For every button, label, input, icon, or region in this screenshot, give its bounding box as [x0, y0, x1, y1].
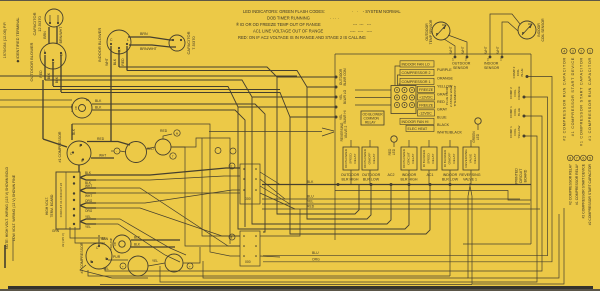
svg-text:ID BLOWER: ID BLOWER — [443, 149, 447, 167]
svg-text:8: 8 — [569, 156, 571, 160]
svg-text:000: 000 — [245, 260, 251, 264]
svg-text:RELAY: RELAY — [431, 154, 435, 164]
svg-text:ORG: ORG — [85, 209, 93, 213]
svg-text:NOTE: HIGH VOLT. WIRING (115 V: NOTE: HIGH VOLT. WIRING (115 V) SHOWN BO… — [5, 167, 9, 249]
svg-text:CB: CB — [113, 242, 117, 246]
svg-text:1: 1 — [589, 49, 591, 53]
svg-text:SPEED: SPEED — [427, 152, 431, 163]
svg-text:L1: L1 — [86, 98, 90, 102]
svg-text:#1 COMPRESSOR RELAY: #1 COMPRESSOR RELAY — [575, 163, 579, 205]
svg-text:#1 COMPRESSOR RUN CAPACITOR: #1 COMPRESSOR RUN CAPACITOR — [588, 57, 592, 141]
svg-text:THERMOSTAT: THERMOSTAT — [453, 85, 457, 106]
svg-text:· · - SYSTEM NORMAL: · · - SYSTEM NORMAL — [352, 9, 401, 14]
svg-text:000: 000 — [245, 197, 251, 201]
svg-text:#1 COMPRESSOR START DEVICE: #1 COMPRESSOR START DEVICE — [571, 57, 575, 136]
svg-text:#2 COMPRESSOR RUN CAPACITOR: #2 COMPRESSOR RUN CAPACITOR — [562, 57, 566, 141]
svg-text:BRN/WHT: BRN/WHT — [59, 26, 63, 44]
svg-text:BLWR LO: BLWR LO — [343, 89, 347, 104]
svg-text:#1 COMPRESSOR START CAPACITOR: #1 COMPRESSOR START CAPACITOR — [580, 57, 584, 146]
svg-text:BLK: BLK — [134, 236, 141, 240]
svg-text:BLACK: BLACK — [437, 123, 450, 127]
svg-text:BLU: BLU — [312, 251, 319, 255]
svg-text:® ID OR OD FREEZE TEMP OUT OF: ® ID OR OD FREEZE TEMP OUT OF RANGE — [236, 22, 321, 27]
svg-text:BRN: BRN — [102, 237, 109, 241]
svg-text:RED: RED — [307, 205, 315, 209]
svg-text:GRN: GRN — [52, 229, 60, 233]
svg-text:#2 COMPRESSOR START CAPACITOR: #2 COMPRESSOR START CAPACITOR — [588, 163, 592, 225]
svg-text:OD BLOWER: OD BLOWER — [402, 148, 406, 168]
svg-text:4: 4 — [563, 49, 565, 53]
svg-text:BLU: BLU — [307, 195, 314, 199]
svg-text:BRN/WHT: BRN/WHT — [140, 47, 158, 51]
svg-text:TERM. BOARD: TERM. BOARD — [50, 194, 54, 218]
svg-text:5 AMP: 5 AMP — [70, 104, 74, 112]
svg-text:BLR LOW: BLR LOW — [363, 178, 380, 182]
svg-text:RED: RED — [121, 58, 125, 66]
svg-text:TWO AMP: TWO AMP — [109, 238, 113, 251]
svg-text:WHT: WHT — [85, 194, 92, 198]
svg-text:5: 5 — [589, 156, 591, 160]
svg-text:1: 1 — [500, 58, 502, 62]
svg-text:BRN: BRN — [140, 32, 148, 36]
svg-text:VALVE 2: VALVE 2 — [344, 126, 348, 139]
svg-text:ORG: ORG — [85, 199, 93, 203]
svg-text:-12VDC: -12VDC — [419, 111, 432, 115]
svg-text:BLUE: BLUE — [520, 68, 524, 76]
svg-text:WHITE/BLACK: WHITE/BLACK — [437, 131, 463, 135]
svg-text:COIL SENSOR: COIL SENSOR — [541, 18, 545, 42]
svg-text:--- --- ---: --- --- --- — [353, 22, 372, 27]
svg-text:PURPLE: PURPLE — [437, 68, 452, 72]
svg-text:BLK: BLK — [95, 106, 102, 110]
svg-text:3: 3 — [572, 49, 574, 53]
svg-text:WHT: WHT — [496, 46, 500, 53]
svg-text:BLK: BLK — [72, 128, 76, 135]
svg-text:BOARD: BOARD — [524, 169, 528, 182]
svg-text:ID BLOWER: ID BLOWER — [422, 149, 426, 167]
svg-text:BRN: BRN — [43, 31, 47, 39]
svg-text:ON/OFF: ON/OFF — [368, 153, 372, 165]
svg-text:YELLOW: YELLOW — [517, 125, 521, 138]
svg-text:BLUE: BLUE — [437, 116, 447, 120]
svg-text:RELAY: RELAY — [473, 154, 477, 164]
svg-text:RELAY: RELAY — [452, 154, 456, 164]
svg-text:OUTDOOR: OUTDOOR — [362, 173, 381, 177]
svg-text:OD BLOWER: OD BLOWER — [344, 148, 348, 168]
svg-text:RED: ON IF AC2 VOLTAGE IS IN R: RED: ON IF AC2 VOLTAGE IS IN RANGE AND S… — [238, 35, 366, 40]
svg-text:LED: LED — [476, 133, 480, 140]
svg-text:CB: CB — [74, 106, 78, 110]
svg-text:#2 COMPRESSOR RELAY: #2 COMPRESSOR RELAY — [568, 163, 572, 205]
svg-text:FREEZE: FREEZE — [419, 88, 434, 92]
svg-text:GRAY: GRAY — [437, 108, 448, 112]
svg-text:-: - — [116, 150, 117, 154]
svg-text:SPEED: SPEED — [349, 152, 353, 163]
svg-text:YEL: YEL — [103, 267, 109, 271]
svg-text:YEL: YEL — [152, 259, 158, 263]
svg-text:7.5/370: 7.5/370 — [191, 36, 196, 50]
svg-text:AC1 LINE VOLTAGE OUT OF RANGE: AC1 LINE VOLTAGE OUT OF RANGE — [253, 29, 324, 34]
svg-text:RED: RED — [97, 137, 105, 141]
svg-text:ELEC HEAT: ELEC HEAT — [408, 127, 429, 131]
svg-text:LOW VOLT. WIRING (12 V) SHOWN: LOW VOLT. WIRING (12 V) SHOWN FINE — [12, 174, 16, 241]
svg-text:RED: RED — [160, 129, 168, 133]
svg-text:WHT: WHT — [105, 58, 109, 66]
svg-text:BLK: BLK — [85, 171, 92, 175]
svg-text:BLWR COM: BLWR COM — [343, 68, 347, 86]
svg-text:BLR HIGH: BLR HIGH — [342, 178, 359, 182]
svg-text:ORG: ORG — [312, 257, 320, 261]
svg-text:INDOOR: INDOOR — [484, 62, 499, 66]
svg-text:12.5/370: 12.5/370 — [37, 15, 42, 31]
svg-text:OUTDOOR: OUTDOOR — [452, 62, 471, 66]
svg-text:#1 COMPRESSOR: #1 COMPRESSOR — [58, 131, 62, 162]
svg-text:BLK: BLK — [95, 99, 102, 103]
svg-text:CIRCUIT #1 CIRCUIT #2: CIRCUIT #1 CIRCUIT #2 — [59, 183, 63, 218]
svg-text:RELAY: RELAY — [372, 154, 376, 164]
svg-text:FREEZE: FREEZE — [419, 103, 434, 107]
svg-text:INDOOR BLOWER: INDOOR BLOWER — [97, 28, 102, 63]
svg-text:YEL: YEL — [307, 200, 314, 204]
svg-text:RELAY: RELAY — [411, 154, 415, 164]
svg-text:REVERSING: REVERSING — [464, 149, 468, 168]
svg-text:BLK: BLK — [307, 180, 314, 184]
svg-text:AC1: AC1 — [427, 173, 434, 177]
svg-text:PUR: PUR — [113, 255, 121, 259]
svg-text:PRINTED: PRINTED — [515, 168, 519, 184]
svg-text:1970/034 (12-06) P.P.: 1970/034 (12-06) P.P. — [3, 22, 7, 58]
svg-text:2: 2 — [580, 49, 582, 53]
svg-text:INDOOR FAN LO: INDOOR FAN LO — [402, 62, 430, 66]
svg-text:#2 COMPRESSOR START DEVICE: #2 COMPRESSOR START DEVICE — [582, 163, 586, 218]
svg-text:6: 6 — [582, 156, 584, 160]
svg-text:VALVE 1: VALVE 1 — [463, 178, 477, 182]
svg-text:WHT: WHT — [99, 154, 106, 158]
svg-text:RELAY: RELAY — [353, 154, 357, 164]
svg-text:COMPRESSOR 2: COMPRESSOR 2 — [402, 71, 431, 75]
svg-text:LED: LED — [392, 148, 396, 155]
svg-text:REVERSING: REVERSING — [459, 173, 480, 177]
svg-text:HIGH VOLT.: HIGH VOLT. — [45, 197, 49, 215]
svg-text:WHT: WHT — [85, 184, 92, 188]
svg-text:DOB TIMER RUNNING: DOB TIMER RUNNING — [267, 16, 310, 21]
svg-text:COMPRESSOR 1: COMPRESSOR 1 — [402, 80, 431, 84]
svg-text:WHT: WHT — [484, 46, 488, 53]
svg-text:BLUE: BLUE — [517, 108, 521, 116]
svg-text:BLK: BLK — [113, 58, 117, 65]
svg-text:YEL: YEL — [85, 215, 91, 219]
svg-text:AC2: AC2 — [388, 173, 395, 177]
svg-text:ORANGE: ORANGE — [437, 77, 454, 81]
svg-text:+: + — [122, 265, 124, 269]
svg-text:TEMP SENSOR: TEMP SENSOR — [429, 19, 433, 44]
svg-text:7: 7 — [576, 156, 578, 160]
svg-text:L: L — [127, 38, 129, 42]
svg-text:BLK: BLK — [134, 243, 141, 247]
svg-text:BLWR HI: BLWR HI — [343, 110, 347, 123]
svg-text:OD BLOWER: OD BLOWER — [363, 148, 367, 168]
svg-text:SENSOR: SENSOR — [453, 66, 469, 70]
svg-text:+12VDC: +12VDC — [419, 95, 433, 99]
svg-text:YEL: YEL — [85, 225, 91, 229]
svg-text:ORANGE: ORANGE — [517, 86, 521, 99]
svg-text:---- ---- ----: ---- ---- ---- — [350, 29, 373, 34]
svg-text:ON/OFF: ON/OFF — [448, 153, 452, 165]
svg-text:INDOOR FAN HI: INDOOR FAN HI — [402, 120, 429, 124]
svg-text:#2 (115 V): #2 (115 V) — [61, 233, 65, 247]
svg-text:CIRCUIT: CIRCUIT — [407, 152, 411, 165]
svg-text:+: + — [189, 265, 191, 269]
svg-text:· · · ·: · · · · — [330, 16, 339, 21]
svg-text:LED INDICATORS: GREEN FLASH CO: LED INDICATORS: GREEN FLASH CODES: — [243, 9, 325, 14]
svg-text:VALVE: VALVE — [469, 154, 473, 164]
svg-text:◆ IDENTIFIED TERMINAL: ◆ IDENTIFIED TERMINAL — [16, 17, 20, 62]
svg-text:CIRCUIT: CIRCUIT — [519, 168, 523, 183]
svg-text:OUTDOOR: OUTDOOR — [341, 173, 360, 177]
svg-text:WHT: WHT — [461, 46, 465, 53]
svg-text:WHT: WHT — [449, 46, 453, 53]
svg-text:RED: RED — [437, 100, 445, 104]
svg-text:M: M — [176, 132, 178, 136]
svg-text:SENSOR: SENSOR — [484, 66, 500, 70]
svg-text:RELAY: RELAY — [365, 121, 376, 125]
